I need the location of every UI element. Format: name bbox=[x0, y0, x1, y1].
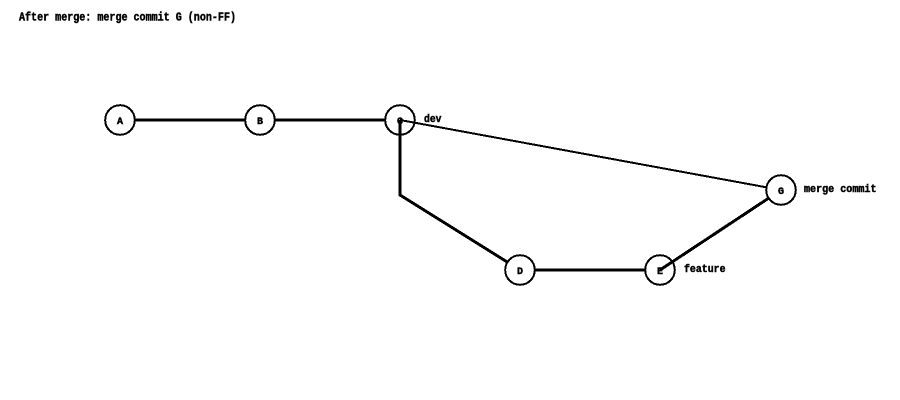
svg-text:A: A bbox=[117, 117, 123, 128]
node C circle bbox=[385, 105, 415, 135]
svg-text:C: C bbox=[397, 117, 403, 128]
node D circle bbox=[505, 255, 535, 285]
svg-text:merge commit: merge commit bbox=[804, 184, 877, 196]
wire edge B-C bbox=[260, 119, 400, 122]
wire edge A-B bbox=[120, 119, 260, 122]
node B circle bbox=[245, 105, 275, 135]
svg-text:dev: dev bbox=[424, 114, 442, 126]
svg-text:G: G bbox=[778, 187, 784, 198]
wire edge E-G bbox=[660, 190, 781, 270]
svg-text:D: D bbox=[517, 267, 523, 278]
node E circle bbox=[645, 255, 675, 285]
wire edge D-E bbox=[520, 269, 660, 272]
svg-text:feature: feature bbox=[684, 264, 726, 276]
svg-text:E: E bbox=[657, 267, 663, 278]
node A circle bbox=[105, 105, 135, 135]
wire edge C-D polyline bbox=[400, 120, 520, 270]
node G circle bbox=[766, 175, 796, 205]
wire edge C-G thin merge line bbox=[400, 120, 781, 190]
svg-text:B: B bbox=[257, 117, 263, 128]
svg-text:After merge: merge commit G (n: After merge: merge commit G (non-FF) bbox=[19, 11, 236, 25]
